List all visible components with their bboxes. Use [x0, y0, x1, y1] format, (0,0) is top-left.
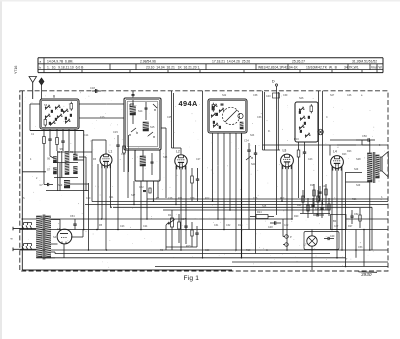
- wire: [110, 165, 112, 208]
- svg-text:C39: C39: [283, 94, 288, 97]
- pickup terminal P1: [285, 235, 289, 239]
- svg-text:C34: C34: [244, 139, 249, 143]
- data strip row 2 text: [47, 65, 382, 69]
- wire: [363, 230, 365, 267]
- coil S6: [53, 157, 56, 163]
- bus wire: [42, 257, 346, 259]
- wire: [105, 166, 107, 250]
- bus wire: [20, 249, 388, 251]
- svg-text:S27: S27: [330, 94, 335, 97]
- wire: [61, 151, 63, 178]
- wire: [241, 133, 243, 258]
- wire: [202, 91, 204, 133]
- svg-text:S28: S28: [356, 157, 361, 161]
- wire: [97, 164, 99, 230]
- coil S9: [74, 154, 78, 160]
- svg-text:P: P: [290, 235, 292, 239]
- wire: [355, 230, 357, 258]
- svg-text:Vruil W.: Vruil W.: [371, 65, 382, 69]
- resistor R2: [56, 138, 59, 145]
- resistor R26: [359, 215, 361, 221]
- transformer lead: [51, 243, 58, 245]
- svg-text:S15: S15: [150, 126, 155, 129]
- field coil box: [304, 232, 339, 250]
- wire: [185, 166, 187, 230]
- transformer lead: [51, 251, 55, 253]
- grid cap wire: [171, 91, 173, 148]
- data strip row 1 text: [40, 59, 378, 69]
- wire: [83, 131, 85, 230]
- svg-text:C46: C46: [347, 94, 352, 97]
- wire: [157, 181, 159, 198]
- wire: [212, 133, 214, 201]
- svg-text:C23: C23: [120, 225, 125, 228]
- svg-text:Fig 1: Fig 1: [184, 275, 200, 282]
- wire: [53, 162, 78, 164]
- wire: [281, 165, 283, 201]
- AF coupling cluster: [297, 190, 330, 218]
- svg-text:R·: R·: [268, 130, 271, 133]
- voltage selector contacts: [22, 223, 32, 251]
- wire: [88, 183, 90, 250]
- bus wire: [147, 198, 388, 200]
- svg-text:C16: C16: [121, 153, 126, 156]
- wire: [128, 135, 130, 172]
- wire: [362, 144, 388, 146]
- capacitor C52: [350, 215, 353, 217]
- transformer lead: [51, 257, 55, 259]
- wire: [311, 246, 313, 270]
- valve L3: [281, 154, 294, 167]
- wire: [262, 91, 264, 150]
- wire: [202, 133, 204, 258]
- wire: [78, 159, 85, 161]
- wire: [331, 167, 333, 230]
- switch contact S24: [246, 156, 251, 160]
- wire: [153, 181, 155, 201]
- svg-text:R23: R23: [347, 150, 352, 153]
- svg-text:C36: C36: [253, 197, 258, 200]
- wire: [286, 168, 288, 251]
- wire: [146, 181, 148, 219]
- oscillator coil unit: [208, 99, 247, 133]
- svg-text:C50: C50: [362, 134, 367, 138]
- svg-text:R23: R23: [342, 153, 347, 156]
- svg-text:Y716: Y716: [14, 66, 18, 74]
- valve L4: [331, 156, 344, 169]
- wire: [217, 133, 219, 219]
- svg-text:L3: L3: [283, 149, 287, 153]
- capacitor C7: [47, 183, 49, 186]
- svg-text:C52: C52: [354, 213, 359, 216]
- diode detector cluster: [310, 184, 327, 210]
- rectifier valve: [57, 229, 72, 244]
- capacitor C54: [73, 223, 76, 225]
- wire: [235, 133, 237, 250]
- svg-text:L6: L6: [57, 227, 61, 231]
- mains lead top: [13, 228, 36, 230]
- dial lamp: [318, 129, 324, 135]
- junction dots: [22, 200, 371, 267]
- wire: [140, 181, 142, 230]
- bus wire: [155, 266, 388, 268]
- wire: [337, 144, 370, 146]
- resistor R8: [149, 188, 151, 193]
- svg-text:R27: R27: [348, 225, 353, 228]
- resistor R24: [256, 215, 268, 219]
- resistor network box: [331, 215, 347, 230]
- svg-text:S6: S6: [44, 103, 48, 107]
- valve L2: [175, 155, 187, 167]
- capacitor C41: [303, 151, 306, 153]
- IF trim cap: [145, 107, 148, 109]
- svg-text:C32: C32: [226, 224, 231, 227]
- svg-text:C53: C53: [358, 246, 363, 249]
- wire: [282, 219, 284, 237]
- svg-text:S4: S4: [53, 235, 57, 239]
- wire: [127, 150, 129, 198]
- svg-text:C54: C54: [70, 215, 75, 218]
- svg-text:C27: C27: [196, 158, 201, 161]
- wire: [68, 129, 70, 151]
- resistor R16: [297, 150, 300, 157]
- output transformer core: [372, 152, 374, 183]
- wire: [175, 166, 177, 205]
- svg-text:C44: C44: [322, 185, 327, 188]
- capacitor C22: [143, 190, 146, 192]
- svg-text:S22: S22: [222, 94, 227, 97]
- mains lead bottom: [13, 248, 36, 250]
- svg-text:R12: R12: [205, 197, 210, 200]
- coil S11: [74, 167, 78, 174]
- resistor R10: [191, 176, 194, 183]
- pickup terminal P2: [285, 243, 289, 247]
- IF lower coil S16: [140, 156, 146, 166]
- svg-text:C29: C29: [190, 197, 195, 200]
- grid wire: [92, 139, 106, 141]
- wire: [165, 128, 167, 198]
- wire: [63, 244, 65, 258]
- svg-text:C40: C40: [266, 95, 271, 98]
- resistor R4: [123, 146, 126, 153]
- svg-text:L1: L1: [109, 150, 113, 154]
- capacitor C50: [367, 138, 369, 142]
- bus wire: [85, 203, 388, 205]
- svg-text:C14: C14: [84, 134, 89, 137]
- grid wire: [329, 145, 331, 156]
- transformer lead: [51, 219, 60, 221]
- volume control R14: [166, 210, 199, 250]
- svg-text:14.04,9.7B 6.8M.: 14.04,9.7B 6.8M.: [47, 59, 73, 63]
- wire: [318, 91, 320, 198]
- capacitor C18: [95, 89, 97, 93]
- capacitor C12: [132, 94, 135, 96]
- svg-text:S23: S23: [250, 134, 255, 137]
- svg-text:R15: R15: [186, 245, 191, 248]
- wire: [59, 163, 61, 191]
- svg-text:17.18.21 14.04.26 25.26: 17.18.21 14.04.26 25.26: [212, 59, 250, 63]
- svg-text:C37: C37: [181, 218, 186, 221]
- parts data strip frame: [38, 58, 383, 73]
- earth pickup terminal: [39, 78, 44, 85]
- svg-text:C13: C13: [100, 116, 105, 119]
- wire: [263, 149, 281, 151]
- valve L1: [100, 154, 112, 166]
- svg-text:S18: S18: [163, 156, 168, 159]
- svg-text:R13: R13: [238, 224, 243, 227]
- svg-text:C38: C38: [253, 94, 258, 97]
- bus wire: [346, 218, 389, 220]
- IF secondary coil S15: [143, 122, 149, 131]
- svg-text:494A: 494A: [179, 99, 199, 108]
- wire: [345, 172, 347, 267]
- gang arrow: [225, 110, 237, 122]
- svg-text:C: C: [326, 116, 328, 119]
- wire: [22, 171, 46, 173]
- IF transformer can: [124, 98, 161, 150]
- wire: [369, 140, 371, 153]
- wire: [180, 168, 182, 250]
- svg-text:L4: L4: [333, 150, 337, 154]
- svg-text:31.26M.51/51/52: 31.26M.51/51/52: [352, 59, 377, 63]
- wire: [341, 166, 343, 250]
- svg-text:D: D: [272, 79, 275, 84]
- svg-text:R19: R19: [310, 184, 315, 187]
- svg-text:S10: S10: [58, 184, 63, 187]
- svg-text:R24: R24: [257, 211, 262, 214]
- bus wire: [113, 206, 372, 208]
- chassis shield dashed border: [20, 91, 388, 271]
- svg-text:R11: R11: [178, 197, 183, 200]
- bus wire: [22, 218, 292, 220]
- mains transformer core: [42, 215, 44, 260]
- svg-text:2.98/54.96: 2.98/54.96: [140, 59, 156, 63]
- wire: [54, 177, 78, 179]
- svg-text:S29: S29: [354, 168, 359, 171]
- wire: [79, 156, 86, 158]
- svg-text:R26: R26: [352, 198, 357, 201]
- output transformer secondary: [376, 155, 379, 178]
- svg-text:C22: C22: [139, 186, 144, 189]
- svg-text:1. 10. 9.18,11.10 6.0 B: 1. 10. 9.18,11.10 6.0 B: [47, 65, 84, 69]
- trimmer circle: [238, 113, 243, 118]
- svg-text:R17: R17: [280, 197, 285, 200]
- svg-text:L7: L7: [304, 243, 308, 247]
- svg-text:C30: C30: [205, 249, 210, 252]
- svg-text:C33: C33: [257, 116, 262, 119]
- hum cap C49: [327, 237, 329, 240]
- svg-text:C20: C20: [86, 197, 91, 200]
- wire: [57, 151, 59, 191]
- svg-text:C43: C43: [308, 158, 313, 161]
- wire: [30, 130, 84, 132]
- bus wire: [232, 261, 388, 263]
- svg-text:C31: C31: [214, 224, 219, 227]
- antenna: [29, 77, 37, 83]
- mains transformer secondary: [46, 216, 51, 258]
- svg-text:C42: C42: [284, 224, 289, 227]
- capacitor C4: [61, 140, 64, 142]
- wire: [46, 190, 89, 192]
- resistor R1: [43, 137, 46, 144]
- svg-text:R14: R14: [168, 214, 173, 217]
- wire: [117, 160, 119, 230]
- svg-text:WB1/42,8104,1P/42,04-1K: WB1/42,8104,1P/42,04-1K: [258, 65, 299, 69]
- svg-text:B: B: [53, 94, 55, 98]
- wire: [346, 172, 363, 174]
- svg-text:C45: C45: [315, 208, 320, 211]
- coil S7: [53, 168, 56, 174]
- inner frame bottom wire: [22, 269, 232, 271]
- svg-text:16/10M/42,TK W. B: 16/10M/42,TK W. B: [306, 65, 338, 69]
- capacitor C35: [254, 152, 257, 154]
- svg-text:3930: 3930: [361, 272, 372, 277]
- bus wire: [163, 209, 330, 211]
- oscillator coil bars: [240, 122, 243, 129]
- svg-text:C48: C48: [268, 226, 273, 229]
- paper speckle: [24, 92, 384, 267]
- capacitor C48: [274, 221, 276, 225]
- svg-text:25.26.27: 25.26.27: [292, 59, 305, 63]
- HT bus wire: [20, 229, 388, 231]
- svg-text:C28: C28: [168, 197, 173, 200]
- aerial coil S8: [65, 152, 69, 175]
- svg-text:34.7K,W1: 34.7K,W1: [344, 65, 359, 69]
- svg-text:C24: C24: [143, 225, 148, 228]
- wire: [223, 133, 225, 230]
- svg-text:C: C: [266, 249, 268, 252]
- svg-text:S25: S25: [262, 205, 267, 208]
- mains transformer primary: [37, 216, 43, 258]
- wire: [336, 169, 338, 258]
- aerial coil L wires: [30, 103, 40, 105]
- svg-text:C18: C18: [90, 86, 95, 90]
- padder caps: [221, 103, 224, 105]
- svg-text:B0: B0: [333, 219, 337, 223]
- speaker coil L7: [307, 236, 317, 246]
- wire: [133, 181, 135, 204]
- capacitor C2: [48, 138, 51, 140]
- wire: [70, 183, 89, 185]
- wire: [71, 236, 83, 238]
- capacitor C34: [247, 149, 250, 151]
- svg-text:S29: S29: [356, 184, 361, 187]
- IF can inner coil box: [135, 150, 160, 181]
- svg-text:C15: C15: [113, 130, 118, 134]
- component value labels: [23, 94, 383, 261]
- wire: [101, 166, 103, 220]
- aerial coil unit S6: [40, 99, 79, 129]
- wire: [322, 91, 324, 205]
- IF primary coil S14: [130, 106, 136, 115]
- output transformer primary S28: [368, 153, 373, 182]
- svg-text:S14: S14: [138, 110, 143, 113]
- wire: [74, 129, 76, 154]
- svg-text:C25: C25: [167, 116, 172, 119]
- svg-text:S17: S17: [131, 194, 136, 197]
- svg-text:S26: S26: [299, 97, 304, 100]
- IF lower trim: [151, 161, 154, 163]
- svg-text:23.10 14.04 16.21 1K 16.2: 23.10 14.04 16.21 1K 16.21,20 1.: [146, 65, 200, 69]
- svg-text:C21: C21: [109, 196, 114, 199]
- oscillator coil S10: [64, 180, 70, 188]
- capacitor C40: [273, 93, 280, 98]
- switch unit S26: [295, 102, 318, 142]
- loudspeaker cone: [380, 157, 382, 171]
- capacitor C26: [196, 178, 199, 180]
- svg-text:L2: L2: [176, 150, 180, 154]
- wire: [229, 133, 231, 210]
- wire: [291, 165, 293, 219]
- svg-text:R18: R18: [246, 249, 251, 252]
- wire: [371, 207, 373, 250]
- tuning gang dashed circle: [222, 107, 239, 124]
- svg-text:R20: R20: [294, 215, 299, 218]
- svg-text:C49: C49: [330, 235, 335, 238]
- svg-text:S24: S24: [251, 163, 256, 166]
- capacitor C15: [116, 144, 119, 146]
- inner frame left wire: [21, 91, 23, 270]
- bus wire: [55, 253, 330, 255]
- svg-text:C47: C47: [334, 225, 339, 228]
- wire: [311, 230, 313, 236]
